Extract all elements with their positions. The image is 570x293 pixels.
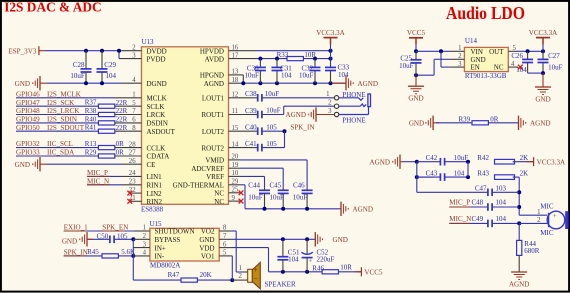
svg-text:C39: C39 — [245, 107, 257, 115]
wire R45 to U15 IN- pin 4 — [118, 255, 133, 257]
regulator U14 RT9013-33GB LDO body — [464, 47, 508, 71]
capacitor C32 10uF — [314, 59, 316, 68]
resistor R33 10R — [287, 57, 303, 61]
wire U13 HPGND pin 13 elbow to AGND bus — [229, 74, 244, 76]
wire GND to R39 — [436, 122, 473, 124]
wire R42 to VCC3.3A port — [513, 161, 534, 163]
svg-text:10uF: 10uF — [244, 72, 259, 80]
capacitor C46 10uF — [306, 187, 308, 190]
svg-text:R29: R29 — [85, 148, 97, 156]
wire GPIO46 to U13 — [16, 97, 114, 99]
svg-text:LOUT2: LOUT2 — [202, 128, 225, 136]
svg-text:R38: R38 — [85, 107, 97, 115]
svg-text:R13: R13 — [85, 140, 97, 148]
svg-text:I2S_MCLK: I2S_MCLK — [47, 90, 82, 98]
svg-text:C42: C42 — [426, 154, 438, 162]
svg-text:GPIO47: GPIO47 — [16, 99, 40, 107]
wire R39 to AGND — [488, 122, 519, 124]
svg-text:10uF: 10uF — [248, 193, 262, 201]
svg-text:AGND: AGND — [286, 111, 307, 119]
capacitor C33 104 — [330, 66, 332, 68]
ground GND under C27 — [535, 86, 551, 88]
wire R44 to AGND — [518, 255, 520, 271]
microphone MIC symbol — [547, 211, 565, 229]
svg-text:NC: NC — [494, 64, 504, 72]
wire to GND symbol — [415, 75, 417, 86]
ground AGND below caps — [340, 202, 342, 216]
svg-text:I2S DAC & ADC: I2S DAC & ADC — [4, 1, 102, 16]
capacitor C43 104 — [417, 176, 441, 178]
wire U15 IN+ pin 3 stub — [133, 247, 150, 249]
ground AGND under R44 — [511, 271, 527, 273]
wire GPIO48 to R38 — [16, 114, 99, 116]
port VCC3.3A at mic bias — [533, 157, 535, 166]
svg-text:C38: C38 — [245, 90, 257, 98]
svg-text:NC: NC — [214, 198, 224, 206]
svg-text:U14: U14 — [465, 37, 478, 45]
svg-text:SPEAKER: SPEAKER — [265, 280, 296, 288]
svg-text:2K: 2K — [520, 154, 529, 162]
svg-text:SCLK: SCLK — [147, 103, 165, 111]
ground AGND at bus end — [345, 76, 347, 90]
svg-text:RIN2: RIN2 — [147, 198, 163, 206]
wire U13 GND-THERMAL pin 29 to AGND bus — [229, 184, 241, 186]
wire to MIC pin 2 — [519, 222, 547, 224]
svg-text:ES8388: ES8388 — [141, 206, 164, 214]
svg-text:10uF: 10uF — [293, 193, 308, 201]
capacitor C27 10uF — [542, 51, 544, 59]
svg-text:VCC3.3A: VCC3.3A — [537, 158, 566, 166]
no-connect X on U13 LIN2 pin 22 — [130, 192, 142, 194]
jack tip contact — [339, 97, 359, 99]
svg-text:GND: GND — [15, 80, 30, 88]
wire VCC5 stem to VIN — [415, 45, 417, 52]
ground GND under C25 — [408, 85, 424, 87]
wire GPIO32 to R13 — [16, 147, 99, 149]
svg-text:LIN2: LIN2 — [147, 190, 163, 198]
svg-text:104: 104 — [106, 72, 117, 80]
wire C50 to U15 BYPASS pin 2 — [131, 237, 135, 241]
svg-text:10uF: 10uF — [270, 193, 285, 201]
svg-text:VCC3.3A: VCC3.3A — [316, 29, 345, 37]
svg-text:104: 104 — [281, 72, 292, 80]
svg-text:IN+: IN+ — [155, 244, 166, 252]
svg-text:C45: C45 — [270, 181, 282, 189]
capacitor C25 10uF — [415, 51, 417, 60]
wire U13 HPVDD pin 16 to VCC3.3A — [229, 50, 257, 52]
speaker LS1 SPEAKER — [248, 269, 253, 282]
svg-text:VCC3.3A: VCC3.3A — [529, 29, 558, 37]
svg-text:R43: R43 — [477, 170, 489, 178]
svg-text:ESP_3V3: ESP_3V3 — [8, 47, 36, 55]
wire MIC_N to U13 RIN1 pin 23 — [87, 184, 122, 186]
wire to GND under C27 — [542, 73, 544, 87]
svg-text:22R: 22R — [116, 107, 128, 115]
svg-text:EXIO_1: EXIO_1 — [64, 224, 88, 232]
svg-text:LRCK: LRCK — [147, 111, 166, 119]
capacitor C47 103 — [417, 191, 488, 193]
resistor R47 20K — [181, 278, 197, 282]
svg-text:C29: C29 — [104, 61, 116, 69]
wire R40 to U13 — [115, 122, 142, 124]
svg-text:10uF: 10uF — [454, 154, 469, 162]
svg-text:AGND: AGND — [530, 120, 551, 128]
svg-text:105: 105 — [117, 232, 128, 240]
svg-text:DGND: DGND — [147, 80, 167, 88]
jack pin 2 — [334, 104, 338, 108]
capacitor C31 104 — [276, 59, 278, 68]
svg-text:−: − — [254, 275, 258, 283]
svg-text:105: 105 — [266, 140, 277, 148]
svg-text:NC: NC — [214, 190, 224, 198]
svg-text:C26: C26 — [511, 52, 523, 60]
wire GPIO49 to R40 — [16, 122, 99, 124]
svg-text:10uF: 10uF — [70, 72, 85, 80]
svg-text:PVDD: PVDD — [147, 55, 166, 63]
power VCC5 rail — [409, 37, 423, 39]
svg-text:VDD: VDD — [199, 244, 214, 252]
wire GPIO33 to R29 — [16, 155, 99, 157]
svg-text:GND: GND — [409, 119, 424, 127]
wire R29 to U13 — [115, 155, 142, 157]
resistor R38 22R — [98, 112, 114, 116]
wire EN pin 3 tied to VIN — [440, 51, 442, 67]
capacitor C30 10uF — [259, 59, 261, 68]
svg-text:103: 103 — [496, 185, 507, 193]
wire U13 VMID pin 20 to C46 — [229, 159, 241, 161]
wire branch to U13 PVDD pin 3 — [118, 51, 120, 59]
wire U14 OUT pin 5 to VCC3.3A — [508, 50, 516, 52]
resistor R46 10R — [322, 270, 338, 274]
svg-text:104: 104 — [288, 256, 299, 264]
svg-text:C43: C43 — [426, 170, 438, 178]
svg-text:IIC_SCL: IIC_SCL — [47, 140, 73, 148]
svg-text:1: 1 — [326, 91, 329, 98]
no-connect X on U13 NC pin 25 — [229, 192, 241, 194]
svg-text:R40: R40 — [85, 115, 97, 123]
svg-text:104: 104 — [496, 215, 507, 223]
resistor R13 0R — [98, 146, 114, 150]
capacitor C52 220uF polarized — [306, 239, 308, 254]
wire VCC3.3A stem — [330, 45, 332, 51]
IC U13 ES8388 codec body — [142, 47, 229, 205]
svg-text:VCC5: VCC5 — [364, 269, 383, 277]
resistor R40 22R — [98, 121, 114, 125]
svg-text:0R: 0R — [116, 140, 125, 148]
svg-text:AGND: AGND — [358, 80, 379, 88]
svg-text:105: 105 — [266, 123, 277, 131]
wire U14 GND pin 2 to ground node — [450, 58, 465, 60]
wire GND to U13 CE pin 26 — [47, 163, 122, 165]
svg-text:CE: CE — [147, 161, 156, 169]
svg-text:MIC_P: MIC_P — [87, 169, 108, 177]
svg-text:MCLK: MCLK — [147, 95, 167, 103]
wire R33 to VCC3.3A node with junctions — [303, 58, 330, 60]
svg-text:GND: GND — [408, 95, 423, 103]
svg-text:MIC: MIC — [540, 229, 554, 237]
resistor R41 22R — [98, 129, 114, 133]
capacitor C48 104 — [449, 206, 488, 208]
wire GND to U13 DGND pin 4 — [47, 82, 122, 84]
svg-text:22R: 22R — [116, 116, 128, 124]
svg-text:680R: 680R — [524, 247, 540, 255]
capacitor C38 10uF LOUT1 pin 12 to jack — [229, 97, 252, 99]
wire U13 AGND pin 18 analog ground bus — [229, 82, 244, 84]
svg-text:I2S_SDIN: I2S_SDIN — [47, 116, 77, 124]
capacitor C26 104 — [527, 51, 529, 59]
svg-text:10R: 10R — [340, 263, 352, 271]
svg-text:CDATA: CDATA — [147, 153, 170, 161]
svg-text:VMID: VMID — [205, 157, 224, 165]
wire R47 to VO1 node — [197, 279, 232, 281]
svg-text:C47: C47 — [475, 185, 487, 193]
ground AGND at R39 — [518, 116, 520, 130]
svg-text:MIC_P: MIC_P — [449, 198, 470, 206]
resistor R29 0R — [98, 154, 114, 158]
svg-text:VCC5: VCC5 — [407, 29, 426, 37]
svg-text:10uF: 10uF — [299, 72, 314, 80]
svg-text:10uF: 10uF — [266, 107, 281, 115]
svg-text:GPIO50: GPIO50 — [16, 124, 40, 132]
svg-text:R41: R41 — [85, 124, 97, 132]
wire GPIO50 to R41 — [16, 130, 99, 132]
svg-text:I2S_SDOUT: I2S_SDOUT — [47, 124, 85, 132]
wire U13 ADCVREF pin 19 to C45 — [229, 167, 241, 169]
svg-text:VO1: VO1 — [201, 253, 215, 261]
power VCC3.3A rail — [324, 37, 338, 39]
svg-text:104: 104 — [516, 66, 527, 74]
wire AGND bus under C44 C45 C46 — [245, 208, 341, 210]
capacitor C49 104 — [449, 222, 488, 224]
svg-text:AGND: AGND — [370, 158, 391, 166]
wire ESP_3V3 to U13 DVDD pin 2 with junctions — [45, 50, 119, 52]
svg-text:GND-THERMAL: GND-THERMAL — [173, 182, 224, 190]
wire feedback to R47 — [133, 279, 181, 281]
capacitor C40 105 LOUT2 pin 15 — [229, 130, 252, 132]
svg-text:SPK_IN: SPK_IN — [290, 123, 314, 131]
svg-text:VO2: VO2 — [201, 228, 215, 236]
capacitor C42 10uF — [417, 161, 441, 163]
svg-text:PHONE: PHONE — [342, 116, 365, 124]
svg-text:C27: C27 — [548, 52, 560, 60]
svg-text:MIC_N: MIC_N — [87, 177, 109, 185]
wire U15 VO2 pin 8 to speaker pin 1 — [219, 230, 231, 232]
wire jack pin 3 to sleeve — [339, 114, 369, 116]
svg-text:104: 104 — [496, 198, 507, 206]
capacitor C44 10uF — [264, 187, 266, 190]
svg-text:GND: GND — [62, 238, 77, 246]
svg-text:LIN1: LIN1 — [147, 173, 163, 181]
wire U15 VDD pin 6 to VCC5 bus — [219, 247, 231, 249]
wire R41 to U13 — [115, 130, 142, 132]
svg-text:22R: 22R — [116, 124, 128, 132]
svg-text:GPIO32: GPIO32 — [16, 140, 40, 148]
svg-text:GPIO46: GPIO46 — [16, 90, 40, 98]
resistor R43 2K — [495, 175, 515, 180]
jack pin 3 — [334, 112, 338, 116]
ground AGND at jack — [315, 107, 317, 121]
svg-text:104: 104 — [338, 71, 349, 79]
svg-text:C46: C46 — [293, 181, 305, 189]
svg-text:ADCVREF: ADCVREF — [191, 165, 224, 173]
wire C26 C27 ground bus — [528, 72, 543, 74]
capacitor C41 105 ROUT2 pin 14 — [229, 147, 252, 149]
svg-text:AVDD: AVDD — [205, 55, 224, 63]
wire C39 to jack pin 2 — [283, 106, 285, 114]
svg-text:MD8002A: MD8002A — [150, 262, 180, 270]
svg-text:CCLK: CCLK — [147, 144, 166, 152]
svg-text:+: + — [254, 266, 258, 274]
wire jack pin 3 to AGND — [316, 114, 334, 116]
svg-text:I2S_LRCK: I2S_LRCK — [47, 107, 80, 115]
svg-text:SPK_EN: SPK_EN — [102, 224, 128, 232]
resistor R44 680R — [517, 240, 522, 255]
svg-text:EN: EN — [471, 64, 480, 72]
svg-text:SPK_IN: SPK_IN — [64, 248, 88, 256]
wire U13 VREF pin 10 to C44 — [229, 175, 241, 177]
svg-text:R42: R42 — [477, 154, 489, 162]
svg-text:ROUT1: ROUT1 — [201, 111, 224, 119]
ground GND at amp — [314, 232, 316, 246]
svg-text:OUT: OUT — [489, 48, 504, 56]
resistor R37 22R — [98, 104, 114, 108]
svg-text:10uF: 10uF — [548, 63, 563, 71]
wire bypass node down to feedback — [132, 239, 134, 280]
svg-text:GND: GND — [333, 236, 348, 244]
wire AGND vertical to C47 row — [416, 177, 418, 192]
port ESP_3V3 — [38, 46, 40, 55]
svg-text:VIN: VIN — [471, 48, 483, 56]
no-connect X on U13 NC pin 9 — [229, 200, 241, 202]
svg-text:C44: C44 — [248, 181, 260, 189]
svg-text:2K: 2K — [520, 170, 529, 178]
svg-text:104: 104 — [454, 170, 465, 178]
svg-text:DVDD: DVDD — [147, 47, 167, 55]
ground AGND at mic bias — [399, 155, 401, 169]
resistor R39 0R — [472, 121, 488, 125]
svg-text:Audio LDO: Audio LDO — [446, 3, 525, 23]
svg-text:AGND: AGND — [204, 80, 224, 88]
ground GND at DGND — [39, 76, 41, 90]
svg-text:SHUTDOWN: SHUTDOWN — [155, 228, 195, 236]
wire U15 GND pin 7 bus — [219, 238, 231, 240]
jack pin 1 — [334, 96, 338, 100]
svg-text:1: 1 — [537, 209, 540, 216]
svg-text:DSDIN: DSDIN — [147, 120, 168, 128]
svg-text:IIC_SDA: IIC_SDA — [47, 149, 75, 157]
svg-text:I2S_SCK: I2S_SCK — [47, 99, 75, 107]
node SPK_IN junction — [283, 129, 287, 133]
svg-text:R37: R37 — [85, 99, 97, 107]
wire U13 AVDD pin 17 to R33 — [229, 58, 257, 60]
svg-text:2: 2 — [328, 100, 332, 107]
svg-text:0R: 0R — [490, 115, 499, 123]
svg-text:U13: U13 — [142, 38, 155, 46]
svg-text:RT9013-33GB: RT9013-33GB — [465, 72, 507, 80]
svg-text:MIC: MIC — [540, 203, 554, 211]
wire R38 to U13 — [115, 114, 142, 116]
wire R46 to VCC5 port — [339, 271, 362, 273]
svg-text:GND: GND — [471, 56, 486, 64]
svg-text:2: 2 — [537, 217, 541, 224]
wire down to R44 — [518, 223, 520, 240]
wire R37 to U13 — [115, 105, 142, 107]
svg-text:20K: 20K — [200, 271, 212, 279]
capacitor C29 104 — [101, 51, 103, 69]
capacitor C50 105 — [87, 238, 110, 240]
svg-text:10uF: 10uF — [265, 90, 280, 98]
wire U15 VO1 pin 5 down to speaker — [219, 255, 231, 257]
svg-text:C50: C50 — [97, 232, 109, 240]
svg-text:GPIO33: GPIO33 — [16, 149, 40, 157]
svg-text:GND: GND — [199, 236, 214, 244]
svg-text:VREF: VREF — [206, 173, 224, 181]
wire to MIC pin 1 — [519, 214, 547, 216]
svg-text:3: 3 — [328, 108, 332, 115]
svg-text:GND: GND — [535, 95, 550, 103]
svg-text:C49: C49 — [472, 215, 484, 223]
port VCC5 — [360, 267, 362, 276]
wire EXIO_1 to U15 SHUTDOWN pin 1 — [64, 230, 134, 232]
svg-text:C48: C48 — [472, 198, 484, 206]
svg-text:HPVDD: HPVDD — [200, 47, 224, 55]
capacitor C39 10uF ROUT1 pin 11 — [229, 114, 252, 116]
svg-text:GPIO48: GPIO48 — [16, 107, 40, 115]
wire R13 to U13 — [115, 147, 142, 149]
svg-text:1: 1 — [238, 265, 241, 272]
svg-text:22R: 22R — [116, 99, 128, 107]
no-connect X on U14 NC pin 4 — [508, 66, 518, 68]
resistor R42 2K — [495, 159, 515, 164]
svg-text:GND: GND — [15, 161, 30, 169]
svg-text:10uF: 10uF — [399, 62, 414, 70]
wire GPIO47 to R37 — [16, 105, 99, 107]
svg-text:C28: C28 — [73, 61, 85, 69]
wire VCC5 to U14 VIN pin 1 — [416, 50, 450, 52]
svg-text:R39: R39 — [459, 115, 471, 123]
svg-text:RIN1: RIN1 — [147, 182, 163, 190]
svg-text:ASDOUT: ASDOUT — [147, 128, 176, 136]
capacitor C45 10uF — [282, 187, 284, 190]
svg-text:R45: R45 — [87, 248, 99, 256]
svg-text:ROUT2: ROUT2 — [201, 144, 224, 152]
svg-text:GPIO49: GPIO49 — [16, 116, 40, 124]
svg-text:R46: R46 — [312, 264, 324, 272]
svg-text:HPGND: HPGND — [200, 72, 224, 80]
ground GND at CE — [39, 157, 41, 171]
wire mic bias vertical — [518, 177, 520, 215]
svg-text:220uF: 220uF — [317, 256, 335, 264]
svg-text:2: 2 — [238, 273, 242, 280]
no-connect X on U13 RIN2 pin 21 — [130, 200, 142, 202]
jack ring contact — [339, 105, 361, 107]
svg-text:AGND: AGND — [509, 280, 530, 288]
svg-text:0R: 0R — [116, 149, 125, 157]
capacitor C51 104 — [282, 239, 284, 256]
wire AGND bus row B — [417, 176, 435, 178]
resistor R45 5.6K — [102, 254, 118, 258]
svg-text:MIC_N: MIC_N — [449, 215, 471, 223]
wire R43 to mic node — [513, 176, 520, 178]
wire MIC_P to U13 LIN1 pin 24 — [87, 175, 122, 177]
capacitor C28 10uF — [85, 51, 87, 69]
svg-text:AGND: AGND — [353, 206, 374, 214]
op-amp U15 MD8002A audio amplifier body — [150, 228, 219, 261]
svg-text:IN-: IN- — [155, 253, 165, 261]
svg-text:LOUT1: LOUT1 — [202, 95, 225, 103]
svg-text:R47: R47 — [168, 271, 180, 279]
svg-text:C40: C40 — [245, 124, 257, 132]
